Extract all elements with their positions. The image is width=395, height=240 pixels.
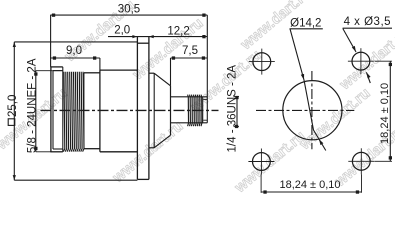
- square symbol of 25,0: [8, 119, 15, 126]
- ext bottom-right hole: [361, 174, 363, 193]
- hole top-right: [352, 52, 370, 70]
- ext right bottom: [375, 160, 393, 162]
- boss-cone boundary: [153, 73, 155, 148]
- front view vertical centerline: [311, 71, 313, 149]
- arrow 4xdia3,5 top: [352, 46, 356, 52]
- N lip top edge: [50, 66, 62, 68]
- N lip right boundary: [62, 67, 64, 152]
- hole BR crosshair: [348, 160, 374, 162]
- dimension texts: [66, 4, 391, 57]
- ext 7,5 left: [170, 58, 172, 86]
- boss bottom edge: [149, 147, 154, 149]
- arrow dia14,2 bottom: [319, 139, 324, 145]
- body top edge: [100, 69, 137, 71]
- body step vertical: [99, 70, 101, 152]
- N barrel bottom edge: [84, 148, 100, 150]
- svg-text:18,24 ± 0,10: 18,24 ± 0,10: [279, 179, 340, 191]
- tick right dim top: [389, 63, 392, 66]
- dim bottom 18,24 line: [261, 191, 361, 193]
- N lip bottom edge: [50, 151, 62, 153]
- flange bottom edge: [137, 178, 149, 180]
- arrow 2,0 left: [132, 35, 137, 38]
- svg-text:5/8 - 24UNEF - 2A: 5/8 - 24UNEF - 2A: [27, 58, 39, 153]
- centerline side view: [41, 109, 219, 111]
- svg-text:7,5: 7,5: [182, 45, 198, 57]
- leader 4xdia3,5 underline: [343, 27, 392, 29]
- flange right edge: [148, 37, 150, 180]
- dim 7,5 line: [171, 57, 208, 59]
- svg-text:25,0: 25,0: [7, 95, 19, 117]
- cone end face: [170, 86, 172, 135]
- arrow dia14,2 top: [301, 74, 304, 80]
- tick 12,2 right: [202, 35, 205, 38]
- tick 1/4 top: [235, 96, 238, 99]
- SMA barrel bottom edge: [171, 122, 208, 124]
- svg-text:12,2: 12,2: [167, 25, 189, 37]
- ext 9,0 right (step up): [99, 58, 101, 70]
- SMA tip chamfer top: [203, 98, 207, 100]
- ext 5/8 bottom: [36, 151, 51, 153]
- body bottom edge: [100, 151, 137, 153]
- N barrel joint: [83, 73, 85, 149]
- arrow square25 bottom: [13, 175, 16, 180]
- ext right top: [375, 60, 393, 62]
- hole bottom-right: [352, 152, 370, 170]
- cone bottom: [154, 135, 170, 148]
- SMA barrel top edge: [171, 96, 208, 98]
- leader dia14,2 line: [290, 29, 326, 151]
- arrow square25 top: [13, 42, 16, 47]
- tick 5/8 top: [34, 72, 37, 75]
- svg-text:Ø14,2: Ø14,2: [290, 17, 321, 29]
- flange left edge: [136, 37, 138, 180]
- tick bottom dim left: [263, 190, 266, 193]
- ext 1/4 bottom stub: [234, 126, 240, 128]
- tick 30,5 left: [52, 14, 55, 17]
- SMA end face: [206, 15, 208, 123]
- dim 2,0 / 12,2 line: [108, 36, 207, 38]
- flange top edge: [137, 42, 149, 44]
- SMA tip chamfer bottom: [203, 119, 207, 121]
- svg-text:4 x Ø3,5: 4 x Ø3,5: [344, 16, 391, 28]
- tick 5/8 bottom: [34, 147, 37, 150]
- ext bottom-left hole: [260, 175, 262, 193]
- boss top edge: [149, 72, 154, 74]
- SMA thread end joint: [202, 97, 204, 123]
- tick bottom dim right: [356, 190, 359, 193]
- ext 5/8 top: [36, 70, 62, 72]
- dim 9,0 line: [50, 57, 100, 59]
- svg-text:30,5: 30,5: [118, 4, 140, 16]
- tick 1/4 bottom: [235, 125, 238, 128]
- tick 7,5 left: [172, 56, 175, 59]
- svg-text:2,0: 2,0: [114, 24, 130, 36]
- svg-text:9,0: 9,0: [66, 45, 82, 57]
- hole top-left: [253, 53, 271, 71]
- front view big circle: [283, 81, 342, 140]
- ext top square25: [14, 41, 137, 43]
- ext bottom square25: [14, 179, 137, 181]
- hole BL crosshair: [248, 161, 274, 163]
- dimension terminators (filled): [13, 14, 392, 194]
- leader 4xdia3,5 line: [343, 29, 356, 53]
- N lip inner bottom line: [53, 148, 63, 150]
- dim 30,5 line: [50, 14, 207, 16]
- N thread hatch 5/8-24UNEF: [63, 72, 84, 152]
- cone top: [154, 73, 170, 86]
- front view horizontal centerline: [256, 109, 354, 111]
- arrow 4xdia3,5 bottom: [366, 72, 370, 78]
- svg-text:1/4 - 36UNS - 2A: 1/4 - 36UNS - 2A: [227, 65, 239, 153]
- tick 30,5 right: [202, 14, 205, 17]
- tick 9,0 left: [53, 56, 56, 59]
- ext 1/4 top stub: [234, 96, 240, 98]
- SMA thread hatch 1/4-36UNS: [188, 95, 202, 127]
- tick 7,5 right: [202, 56, 205, 59]
- N lip left face: [50, 67, 52, 152]
- hole TR crosshair: [348, 60, 374, 62]
- N lip inner vertical: [52, 71, 54, 149]
- N barrel top edge: [84, 72, 100, 74]
- hole TL crosshair: [249, 61, 275, 63]
- dim square25 vertical line: [13, 42, 15, 180]
- dim 5/8 thread vertical line: [35, 71, 37, 152]
- svg-text:18,24 ± 0,10: 18,24 ± 0,10: [379, 83, 391, 144]
- hole bottom-left: [253, 153, 271, 171]
- arrow 2,0/12,2 right: [149, 35, 154, 38]
- dim 1/4 thread vertical line: [236, 97, 238, 127]
- dim right 18,24 line: [389, 61, 391, 161]
- tick right dim bottom: [389, 156, 392, 159]
- tick 9,0 right: [93, 56, 96, 59]
- ext line left 30,5: [50, 15, 52, 67]
- N lip inner top line: [53, 70, 63, 72]
- leader dia14,2 underline: [290, 28, 323, 30]
